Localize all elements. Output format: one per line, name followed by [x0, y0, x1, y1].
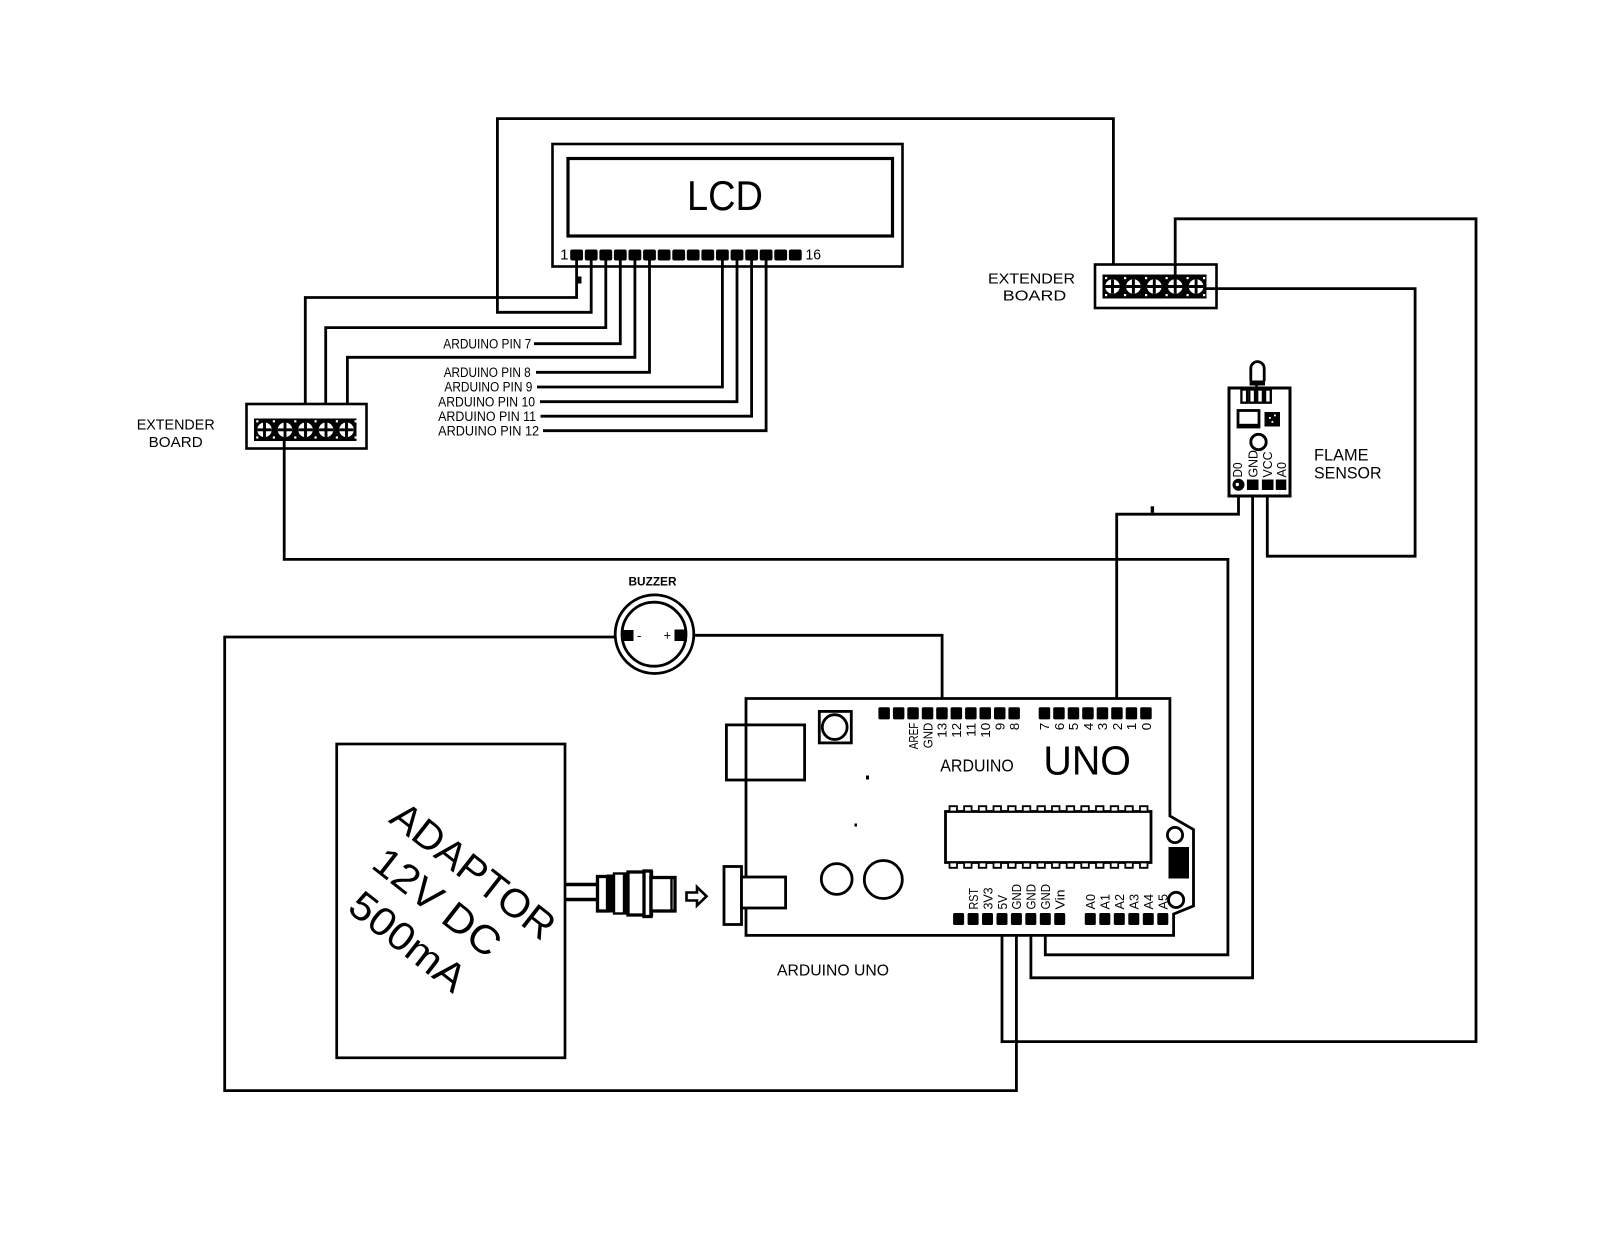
svg-text:ARDUINO PIN 10: ARDUINO PIN 10: [438, 394, 535, 409]
adaptor cable leads: [565, 885, 598, 900]
svg-text:3: 3: [1096, 723, 1110, 731]
svg-text:A3: A3: [1128, 894, 1142, 910]
flame sensor pad A0: [1276, 480, 1287, 491]
svg-text:9: 9: [994, 723, 1008, 731]
Arduino top header pin 6: [1053, 707, 1065, 719]
svg-text:SENSOR: SENSOR: [1314, 463, 1382, 482]
Arduino top header pin 12: [951, 707, 963, 719]
LCD pin 12: [731, 250, 744, 261]
svg-text:10: 10: [979, 723, 993, 738]
plug-in direction arrow: [687, 887, 707, 906]
buzzer plus terminal: [675, 630, 688, 642]
flame sensor trim pot: [1251, 434, 1266, 449]
wire LCD pin12 to ARDUINO PIN 10 label: [540, 261, 737, 402]
adaptor value label (rotated): [323, 794, 564, 1025]
LCD pin 10: [701, 250, 714, 261]
svg-text:A2: A2: [1113, 894, 1127, 910]
Arduino power pin 3V3: [982, 913, 993, 925]
svg-text:1: 1: [1125, 723, 1139, 731]
EB1 screw terminal 1: [257, 423, 272, 438]
Arduino ICSP header block: [1169, 847, 1190, 879]
flame sensor component R1: [1238, 411, 1259, 428]
EB2 screw terminal 5: [1189, 279, 1204, 294]
board speck 2: [855, 824, 858, 827]
LCD screen inner box: [568, 159, 893, 237]
LCD pin 5: [629, 250, 642, 261]
EB2 screw terminal 1: [1105, 279, 1120, 294]
Arduino microcontroller IC U1: [946, 812, 1152, 863]
svg-text:1: 1: [560, 247, 568, 264]
LCD pin 7: [658, 250, 671, 261]
svg-text:5: 5: [1067, 723, 1081, 731]
svg-text:A5: A5: [1157, 894, 1171, 910]
Arduino analog pin A5: [1157, 913, 1168, 925]
Arduino power pin Vin: [1054, 913, 1065, 925]
wire LCD pin5 to extender EB1 terminal 5: [347, 261, 635, 431]
svg-text:AREF: AREF: [907, 722, 921, 749]
EB1 screw terminal 3: [298, 423, 313, 438]
svg-text:ARDUINO PIN 7: ARDUINO PIN 7: [443, 336, 531, 351]
svg-text:GND: GND: [1039, 884, 1053, 910]
wire LCD pin2 to extender EB2 terminal 1: [497, 119, 1113, 313]
svg-text:ARDUINO PIN 11: ARDUINO PIN 11: [438, 409, 536, 424]
buzzer outer ring: [615, 595, 694, 674]
svg-text:ARDUINO PIN 8: ARDUINO PIN 8: [444, 365, 531, 380]
svg-text:A0: A0: [1275, 462, 1289, 478]
wire LCD pin11 to ARDUINO PIN 9 label: [537, 261, 722, 388]
Arduino top header pin 13: [936, 707, 948, 719]
wire LCD pin6 to ARDUINO PIN 8 label: [536, 261, 650, 373]
Arduino power pin GND: [1025, 913, 1036, 925]
LCD pin 1: [570, 250, 583, 261]
svg-text:EXTENDER: EXTENDER: [137, 418, 215, 434]
svg-text:3V3: 3V3: [981, 887, 995, 909]
EB1 strip solder dots: [256, 420, 258, 422]
EB1 terminal strip: [254, 419, 357, 442]
Arduino capacitor C1: [821, 864, 852, 895]
EB2 screw terminal 3: [1147, 279, 1162, 294]
flame sensor pin header block: [1241, 390, 1247, 403]
DC plug barrel: [598, 871, 676, 917]
svg-text:BOARD: BOARD: [149, 435, 203, 451]
svg-text:5V: 5V: [996, 894, 1010, 909]
svg-text:ARDUINO PIN 12: ARDUINO PIN 12: [438, 423, 539, 438]
svg-text:8: 8: [1008, 723, 1022, 731]
Arduino DC power jack: [724, 867, 742, 925]
svg-text:GND: GND: [1010, 884, 1024, 909]
svg-text:EXTENDER: EXTENDER: [988, 272, 1075, 288]
wire EB2 terminal 4 to Arduino 5V pin (right loop): [1002, 219, 1476, 1042]
svg-text:+: +: [664, 628, 672, 643]
wire flame sensor D0 to Arduino pin 2: [1117, 489, 1239, 707]
svg-text:16: 16: [806, 247, 822, 264]
svg-text:11: 11: [965, 723, 979, 737]
Arduino top header pin 8: [1008, 707, 1020, 719]
svg-text:-: -: [637, 628, 641, 643]
Arduino top header pin AREF: [907, 707, 919, 719]
Arduino power pin 5V: [997, 913, 1008, 925]
Arduino top header pin 2: [1111, 707, 1123, 719]
flame sensor pad GND: [1247, 480, 1259, 491]
flame sensor comparator IC: [1265, 412, 1281, 427]
svg-text:GND: GND: [921, 723, 935, 749]
svg-text:0: 0: [1140, 723, 1154, 731]
svg-text:FLAME: FLAME: [1314, 445, 1369, 464]
EB2 terminal strip: [1103, 275, 1207, 299]
EB1 screw terminal 4: [319, 423, 334, 438]
junction nub on LCD pin1 wire: [578, 277, 582, 284]
Arduino top header pin 4: [1082, 707, 1094, 719]
EB2 screw terminal 2: [1126, 279, 1141, 294]
wire flame sensor GND to Arduino GND pin 2: [1031, 489, 1253, 978]
wire EB2 strip right side to flame sensor VCC: [1207, 289, 1416, 557]
flame sensor pad VCC: [1262, 480, 1274, 491]
svg-text:RST: RST: [967, 888, 981, 910]
Arduino analog pin A3: [1128, 913, 1139, 925]
Arduino top header pin 10: [980, 707, 992, 719]
Arduino power pin nc: [953, 913, 964, 925]
buzzer minus terminal: [623, 630, 634, 641]
svg-text:13: 13: [936, 723, 950, 738]
Arduino UNO board outline: [746, 699, 1194, 936]
Arduino top header pin 9: [994, 707, 1006, 719]
Arduino top header pin nc0: [878, 707, 890, 719]
Arduino analog pin A1: [1099, 913, 1110, 925]
svg-text:LCD: LCD: [687, 172, 763, 219]
flame sensor IR LED: [1251, 362, 1264, 381]
LCD module outer box: [553, 144, 903, 267]
svg-text:A4: A4: [1142, 894, 1156, 910]
svg-text:2: 2: [1111, 723, 1125, 731]
svg-text:GND: GND: [1025, 884, 1039, 910]
svg-text:4: 4: [1082, 723, 1096, 731]
svg-text:GND: GND: [1246, 450, 1260, 478]
Arduino USB connector: [726, 725, 804, 780]
LCD pin 16: [789, 250, 802, 261]
flame sensor module box: [1229, 388, 1290, 496]
Arduino top header pin 7: [1039, 707, 1051, 719]
wire LCD pin14 to ARDUINO PIN 12 label: [543, 261, 766, 431]
extender board EB1 outer box: [247, 404, 367, 449]
Arduino analog pin A0: [1085, 913, 1096, 925]
Arduino capacitor C2: [864, 861, 902, 899]
Arduino top header pin nc1: [893, 707, 905, 719]
EB2 screw terminal 4: [1168, 279, 1183, 294]
EB1 screw terminal 5: [339, 423, 354, 438]
svg-text:UNO: UNO: [1043, 738, 1131, 784]
wire LCD pin1 to extender EB1 terminal 3: [305, 261, 576, 431]
svg-text:A1: A1: [1099, 894, 1113, 910]
Arduino top header pin 1: [1126, 707, 1138, 719]
svg-text:ARDUINO UNO: ARDUINO UNO: [777, 963, 889, 980]
wire LCD pin13 to ARDUINO PIN 11 label: [541, 261, 752, 417]
LCD pin 15: [774, 250, 787, 261]
svg-text:12: 12: [950, 723, 964, 738]
Arduino analog pin A2: [1114, 913, 1125, 925]
Arduino analog pin A4: [1143, 913, 1154, 925]
svg-text:A0: A0: [1084, 894, 1098, 910]
flame sensor pad D0: [1233, 479, 1245, 491]
Arduino mounting hole top: [1167, 827, 1182, 842]
junction nub on D0 wire: [1151, 506, 1154, 513]
buzzer inner circle: [622, 602, 686, 666]
adaptor 12V DC box: [337, 744, 565, 1058]
Arduino top header pin 11: [965, 707, 977, 719]
svg-text:VCC: VCC: [1261, 452, 1275, 478]
Arduino power pin GND: [1011, 913, 1022, 925]
Arduino top header pin GND: [922, 707, 934, 719]
wire LCD pin4 to ARDUINO PIN 7 label: [534, 261, 620, 344]
svg-text:Vin: Vin: [1054, 889, 1068, 909]
EB2 strip solder dots: [1105, 277, 1107, 279]
svg-text:BUZZER: BUZZER: [629, 575, 677, 589]
svg-text:BOARD: BOARD: [1003, 289, 1067, 305]
wire buzzer minus to Arduino GND pin 1 (left loop): [225, 637, 1017, 1091]
svg-text:ARDUINO PIN 9: ARDUINO PIN 9: [444, 380, 532, 395]
Arduino top header pin 0: [1140, 707, 1152, 719]
Arduino mounting hole bottom: [1169, 892, 1184, 907]
svg-text:6: 6: [1053, 723, 1067, 731]
LCD pin 13: [745, 250, 758, 261]
wire buzzer plus to Arduino pin 13: [687, 635, 942, 707]
Arduino reset button: [819, 711, 851, 743]
Arduino top header pin 3: [1097, 707, 1109, 719]
LCD pin 2: [585, 250, 598, 261]
board speck 1: [866, 776, 869, 780]
Arduino power pin GND: [1040, 913, 1051, 925]
LCD pin 4: [614, 250, 627, 261]
LCD pin 6: [643, 250, 656, 261]
LCD pin 11: [716, 250, 729, 261]
LCD pin 8: [672, 250, 685, 261]
svg-text:ARDUINO: ARDUINO: [940, 756, 1014, 776]
LCD pin 9: [687, 250, 700, 261]
wire LCD pin3 to extender EB1 terminal 4: [326, 261, 606, 431]
Arduino power pin RST: [968, 913, 979, 925]
LCD pin 14: [760, 250, 773, 261]
svg-text:7: 7: [1038, 723, 1052, 731]
wire Arduino GND pin 3 to extender EB1 terminal 2: [284, 441, 1228, 955]
svg-text:D0: D0: [1231, 462, 1245, 477]
LCD pin 3: [599, 250, 612, 261]
EB1 screw terminal 2: [278, 423, 293, 438]
extender board EB2 outer box: [1095, 265, 1217, 309]
Arduino top header pin 5: [1068, 707, 1080, 719]
